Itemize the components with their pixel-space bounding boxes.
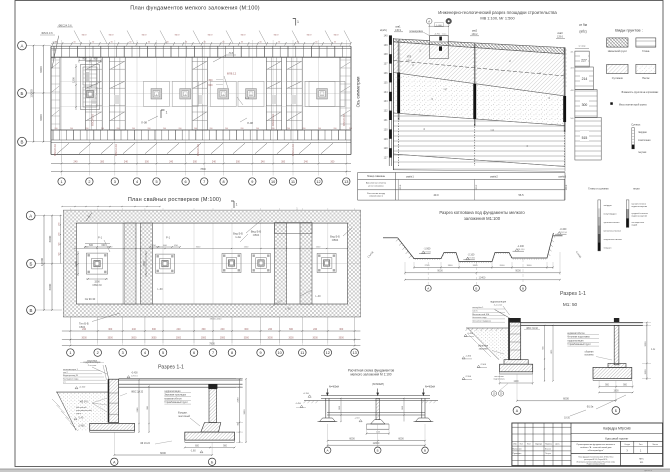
plan1 section mark bottom mid [141,110,168,125]
plan1 top dimension chain row [51,42,352,46]
svg-text:129.150: 129.150 [559,232,568,234]
svg-text:600: 600 [58,233,60,236]
plan2 interior wall strip 4 [300,223,312,304]
svg-text:12000: 12000 [29,89,33,98]
m50 slope line above wall [495,310,510,319]
svg-text:4Ф 19.24: 4Ф 19.24 [140,442,150,445]
svg-text:текучая: текучая [604,248,613,250]
geo left boundary line [392,38,394,170]
svg-text:В: В [424,449,426,453]
geo planirovka label [409,30,446,36]
pit elevation flag -2.100 middle [463,253,475,259]
svg-text:9000: 9000 [515,270,521,273]
svg-text:13: 13 [352,351,356,355]
plan2 interior wall strip 2 [141,223,153,304]
section1 backfill slope line above wall [103,365,109,380]
svg-text:240: 240 [132,328,137,331]
svg-text:9: 9 [260,351,262,355]
svg-text:515: 515 [582,136,588,140]
svg-text:Вид Б-Б: Вид Б-Б [251,230,262,234]
svg-text:129.6: 129.6 [557,36,564,39]
m50 column footing dims [598,381,633,394]
svg-text:Разрез 1-1: Разрез 1-1 [158,365,184,371]
svg-text:12000: 12000 [40,257,44,266]
svg-text:11: 11 [300,351,304,355]
svg-text:600: 600 [102,244,107,247]
svg-text:60: 60 [260,42,262,44]
plan1 axis B grid line horizontal [51,93,351,95]
svg-text:56.5: 56.5 [518,193,524,197]
section1 axis bubble A [111,458,118,465]
svg-text:60: 60 [278,42,280,44]
section1 wall dim verticals [137,379,150,433]
svg-text:300: 300 [582,103,588,107]
svg-text:129.15: 129.15 [131,376,138,378]
svg-text:240: 240 [221,328,226,331]
svg-text:1: 1 [166,111,168,115]
svg-text:300: 300 [208,79,213,82]
svg-text:ФБС24.3.6: ФБС24.3.6 [343,113,346,125]
svg-text:Разрез 1-1: Разрез 1-1 [560,291,586,297]
plan2 bottom dimension line 2 [62,337,361,340]
svg-text:ФЛ8.12: ФЛ8.12 [227,72,237,76]
svg-text:3000: 3000 [268,337,274,339]
svg-text:1-4м: 1-4м [235,235,241,239]
svg-text:60: 60 [129,42,131,44]
svg-text:-1.40: -1.40 [78,418,84,420]
svg-text:6000: 6000 [48,283,52,290]
svg-text:Б: Б [21,91,24,96]
svg-text:6000: 6000 [39,66,43,73]
plan2 pile cap detail dims at axis 2 [75,244,111,288]
m50 axis bubble A [513,407,521,415]
svg-text:А: А [29,213,32,218]
svg-text:сборная: сборная [585,352,595,354]
svg-text:3000: 3000 [339,337,345,339]
svg-text:5: 5 [155,180,157,184]
svg-text:ФБС9: ФБС9 [306,33,311,36]
calc inner vertical dims [339,398,405,422]
title block internal lines [512,423,663,466]
svg-text:Лист: Лист [527,443,531,445]
svg-text:водонасыщения: водонасыщения [632,215,648,217]
svg-text:8: 8 [231,351,233,355]
svg-text:Номер скважины: Номер скважины [367,176,385,178]
svg-text:2000: 2000 [500,265,506,267]
svg-text:Курсовой проект: Курсовой проект [605,436,629,440]
svg-text:Насыпной грунт: Насыпной грунт [608,49,628,53]
svg-text:200: 200 [55,128,58,130]
geo layer 1 fill top soil [393,36,565,54]
svg-text:В: В [522,286,524,290]
svg-text:В: В [21,140,24,145]
svg-text:гидроизоляция: гидроизоляция [164,391,181,393]
svg-text:200: 200 [334,128,337,130]
svg-text:214: 214 [582,77,588,81]
plan2 checker band slash mark [86,213,92,222]
svg-text:3000: 3000 [108,337,114,339]
plan2 column grid bubbles 1-13 [67,349,75,357]
svg-text:Петров: Петров [545,453,551,455]
svg-text:М1: 50: М1: 50 [563,302,578,307]
svg-text:(N=600кН): (N=600кН) [372,383,384,386]
svg-text:10-20: 10-20 [564,418,571,420]
svg-text:3000: 3000 [313,337,319,339]
m50 right vertical dim [642,322,656,380]
svg-text:Абсолютная отметка: Абсолютная отметка [366,182,387,185]
plan2 section mark top [231,201,238,208]
m50 backfill dotted left of wall [468,329,508,360]
svg-text:Кол.: Кол. [520,443,524,445]
svg-text:керамзитобетон: керамзитобетон [164,398,182,400]
svg-text:5: 5 [162,351,164,355]
svg-text:600: 600 [58,253,60,256]
plan2 tip label below left [79,313,120,329]
svg-text:130.9: 130.9 [400,184,402,190]
legend box nasypnoy [607,38,628,53]
svg-text:УГВ: УГВ [407,56,412,59]
svg-text:L-60: L-60 [157,287,163,291]
section1 dotted backfill left of wall [57,392,109,430]
svg-text:Стадия: Стадия [624,444,630,446]
m50 mid labels box [567,333,599,346]
svg-text:№докум: №докум [535,442,543,445]
svg-text:2-х слоя: 2-х слоя [494,304,503,306]
svg-text:Кафедра МГрСиВ: Кафедра МГрСиВ [603,427,631,431]
svg-text:Листов: Листов [652,444,658,446]
svg-text:300: 300 [108,328,113,331]
svg-text:ФБС9: ФБС9 [141,33,146,36]
svg-text:300: 300 [330,160,335,163]
svg-text:200: 200 [349,128,352,130]
svg-text:1500: 1500 [94,281,100,284]
svg-text:твёрдая: твёрдая [604,205,613,207]
plan1 bottom wall strip [51,128,352,154]
pit elevation flag -1.400 [513,245,526,251]
section1 left wall hatched [108,379,119,422]
svg-text:Выполнил: Выполнил [513,448,522,450]
svg-text:Лист: Лист [639,444,643,446]
svg-text:ФЛ24.3.6: ФЛ24.3.6 [41,31,53,35]
svg-text:3000: 3000 [82,337,88,339]
svg-text:2280: 2280 [237,397,239,403]
svg-text:10: 10 [277,351,281,355]
svg-text:300: 300 [289,328,294,331]
svg-text:Инженерно-геологический разрез: Инженерно-геологический разрез площадки … [438,10,557,15]
svg-text:ФБС9: ФБС9 [240,33,245,36]
svg-text:200: 200 [148,128,151,130]
calc load arrow N1 [326,385,339,395]
svg-text:Звуковая прокладка: Звуковая прокладка [164,395,186,397]
svg-text:м(абс): м(абс) [380,29,387,32]
svg-text:керамзитобетон: керамзитобетон [567,333,585,335]
svg-text:300: 300 [193,160,198,163]
svg-text:скв№3: скв№3 [558,175,566,178]
svg-text:1800: 1800 [613,390,619,392]
svg-text:240: 240 [169,160,174,163]
svg-text:МГС: МГС [639,459,644,461]
svg-text:60: 60 [334,42,336,44]
svg-text:3000: 3000 [151,337,157,339]
pit dimension line 3 total [404,277,561,281]
svg-text:ФБС24.3.6: ФБС24.3.6 [54,143,57,155]
m50 wall elevation flags [462,333,474,379]
svg-text:200: 200 [163,128,166,130]
svg-text:перемешанный: перемешанный [76,409,93,412]
calc beam top chord [321,396,430,399]
svg-text:А: А [427,286,429,290]
svg-text:Проверил: Проверил [513,453,522,455]
svg-text:колонна: колонна [585,355,594,357]
plan1 footing plate F5 [309,81,335,106]
svg-text:ФБС9: ФБС9 [273,33,278,36]
bottom grey screen band [0,469,670,472]
svg-text:ФБС24.3.6: ФБС24.3.6 [58,23,72,27]
plan1 block leader diagonals above top band [74,31,351,44]
calc column 2 hatched [367,398,390,429]
svg-text:в Екатеринбурге": в Екатеринбурге" [588,450,604,452]
svg-text:1: 1 [69,351,71,355]
svg-text:240: 240 [212,160,217,163]
svg-text:200: 200 [70,128,73,130]
m50 footing elevation flag [477,364,487,367]
geo layer 3 fill sand [393,73,565,126]
plan1 footing plate wide right bay [305,81,345,106]
plan1 interior wall strip 5 [286,57,302,130]
svg-text:засыпка: засыпка [479,349,488,351]
svg-text:40.0: 40.0 [433,193,439,197]
plan2 bottom total dimension [62,343,361,347]
svg-text:грунт: грунт [76,413,81,415]
plan2 internal dimension chain [74,246,348,249]
svg-text:200: 200 [318,128,321,130]
svg-text:планировка: планировка [409,30,423,33]
svg-text:-1.450: -1.450 [465,356,472,358]
svg-text:1500: 1500 [143,261,146,267]
geo borehole 2 [470,29,479,167]
svg-text:скв№2: скв№2 [490,175,498,178]
plan1 bottom dimension line segments [51,155,351,176]
geo elevation scale bar [380,29,392,166]
svg-text:6: 6 [193,351,195,355]
svg-text:900: 900 [93,57,98,61]
svg-text:Л-08: Л-08 [247,121,253,125]
svg-text:Тип Б-Б: Тип Б-Б [79,322,89,326]
svg-text:L-40: L-40 [315,294,321,298]
m50 wall footing [500,360,533,374]
geo table row labels [366,176,387,198]
svg-text:1-1: 1-1 [245,96,249,100]
svg-text:300: 300 [202,328,207,331]
svg-text:Песок: Песок [642,76,650,80]
m50 wall hatched [508,318,521,360]
svg-text:1.000: 1.000 [436,25,442,27]
svg-text:мелкого заложения М 1:100: мелкого заложения М 1:100 [350,373,391,377]
svg-text:Разрез котлована под фундамент: Разрез котлована под фундаменты мелкого [439,210,525,215]
svg-text:текучая: текучая [638,152,647,154]
svg-text:обратная: обратная [478,346,489,348]
calc elevation flags [295,393,362,422]
plan2 grid lines vertical [70,208,354,345]
plan1 left wall strip [51,46,60,154]
svg-text:СВ64: СВ64 [79,326,86,329]
legend box suglinok [607,64,628,79]
title block theme text [577,443,615,452]
section1 wall footing slab [90,424,135,433]
svg-text:2: 2 [97,351,99,355]
svg-text:7: 7 [203,180,205,184]
svg-text:Подпись: Подпись [545,443,552,445]
svg-text:Л-08: Л-08 [141,121,147,125]
plan2 interior wall strip 3 [275,223,287,304]
geo water table elevation marks [406,56,412,63]
svg-text:13: 13 [344,180,348,184]
svg-text:ЖБС 24.32: ЖБС 24.32 [131,391,144,394]
calc dim lines [327,424,426,447]
plan2 bottom dimension line 1 [62,317,361,343]
plan1 left row axis bubble A [18,41,27,50]
plan2 left row axis bubble B [27,259,36,268]
pit axis bubbles [425,262,431,291]
svg-text:-0.450: -0.450 [467,333,474,335]
svg-text:Виды грунтов :: Виды грунтов : [615,28,642,33]
svg-text:Иванов: Иванов [545,448,551,450]
svg-text:11: 11 [291,180,295,184]
plan1 left row axis bubble V [18,137,27,146]
plan2 left vertical dimension lines [36,215,62,311]
svg-text:60: 60 [92,42,94,44]
svg-text:6000: 6000 [398,438,404,441]
calc axis bubbles [324,447,331,454]
svg-text:водонасыщения: водонасыщения [632,206,648,208]
plan1 footing plate F1 [143,81,169,106]
plan1 interior wall strip 1 [85,57,102,130]
svg-text:т.2: т.2 [443,87,447,91]
svg-text:Разрез котлована М 100: Разрез котлована М 100 [587,464,605,466]
svg-text:9000: 9000 [437,270,443,273]
m50 mid vertical dim chains [542,325,553,382]
svg-text:300: 300 [236,160,241,163]
svg-text:3500: 3500 [527,265,533,267]
title block group info [577,456,616,466]
svg-text:1650: 1650 [339,406,341,410]
svg-text:Утрамбованный грунт: Утрамбованный грунт [164,401,188,404]
svg-text:устья скважины: устья скважины [368,185,384,187]
svg-text:4: 4 [144,351,146,355]
plan2 stair shaft notch [275,223,313,234]
plan1 column grid bubbles 1-13 [58,178,65,185]
pit dimension line 2 [404,252,561,275]
geo layer 2 fill loam [393,42,565,96]
svg-text:300: 300 [152,328,157,331]
svg-text:3000: 3000 [244,337,250,339]
m50 left labels stack [472,307,505,322]
calc basement floor line [327,413,425,415]
section1 floor slab lines [119,379,243,387]
plan2 pile cap 2 [156,254,175,273]
svg-text:ФБС24.3.6: ФБС24.3.6 [272,113,275,125]
svg-text:3000: 3000 [201,337,207,339]
svg-text:600: 600 [89,244,94,247]
geo groundwater dashed line [393,61,565,77]
svg-text:7800: 7800 [200,168,206,171]
svg-text:130.9: 130.9 [395,29,402,32]
svg-text:Проектирование фундаментов м: Проектирование фундаментов мелкого и [577,443,615,446]
geo building axis circles A B [426,18,451,35]
svg-text:60: 60 [315,42,317,44]
svg-text:227: 227 [581,59,587,63]
svg-text:60: 60 [241,42,243,44]
geo table grid [358,173,565,201]
svg-text:т.4: т.4 [490,128,494,132]
svg-text:ФБС12.3.6: ФБС12.3.6 [292,143,295,155]
m50 axis bubble B [612,407,620,415]
svg-text:Л-6: Л-6 [229,51,234,55]
svg-text:Супеси:: Супеси: [631,123,641,127]
svg-text:240: 240 [268,328,273,331]
svg-text:-1.400: -1.400 [517,245,524,248]
svg-text:А: А [21,43,24,48]
svg-text:СВ90.30: СВ90.30 [92,284,102,287]
svg-text:ФБС9: ФБС9 [108,33,113,36]
m50 floor label [524,328,540,330]
svg-text:3300: 3300 [473,265,479,267]
svg-text:12: 12 [326,351,330,355]
svg-text:гидроизоляция: гидроизоляция [84,361,101,364]
svg-text:МВ 1:100, Мг 1:500: МВ 1:100, Мг 1:500 [480,15,515,20]
svg-text:128.6: 128.6 [406,60,412,62]
svg-text:4: 4 [136,180,138,184]
svg-text:130.2: 130.2 [476,184,478,190]
pit elevation flag -1.900 [419,248,432,254]
svg-text:240: 240 [313,328,318,331]
svg-text:200: 200 [303,128,306,130]
svg-text:Вид Б-Б: Вид Б-Б [233,232,243,236]
geo borehole 1 [394,25,403,167]
svg-text:1200: 1200 [75,261,78,267]
svg-text:гидроизоляция: гидроизоляция [490,302,507,304]
plan2 pile cap 1 [87,253,108,274]
svg-text:60: 60 [222,42,224,44]
svg-text:1: 1 [236,203,238,207]
svg-text:200: 200 [241,128,244,130]
plan1 interior wall strip 2 [109,57,125,130]
svg-text:1500: 1500 [645,369,647,375]
section1 column B [208,384,217,423]
svg-text:3000: 3000 [220,337,226,339]
svg-text:2-х слоя: 2-х слоя [88,365,97,367]
svg-text:1200: 1200 [513,381,519,383]
svg-text:-0.400: -0.400 [560,228,567,231]
svg-text:В: В [30,308,33,313]
legend supesi block [631,123,651,154]
svg-text:Насыпной: Насыпной [76,406,87,409]
plan2 note below bubble2 [80,360,104,363]
geo layer 5 bottom band [393,154,565,171]
svg-text:1800: 1800 [448,265,454,267]
plan2 left row axis bubble A [26,211,35,220]
geo layer 4 fill clay horizontal lines [393,113,565,167]
calc column 1 [318,398,338,421]
pit ground line left [383,237,398,239]
section1 mid text labels box [164,391,191,404]
section1 column footing steps [185,423,235,443]
m50 floor slab [521,322,643,325]
svg-text:3: 3 [122,351,124,355]
svg-text:60: 60 [148,42,150,44]
svg-text:ленточный: ленточный [178,415,191,418]
svg-text:200: 200 [256,128,259,130]
